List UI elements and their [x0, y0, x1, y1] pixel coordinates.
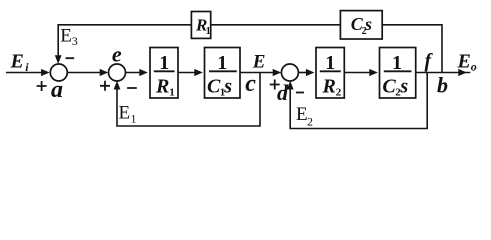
- block 1/C2s: [380, 48, 416, 99]
- wire E1 feedback: [117, 73, 260, 127]
- arrowhead into e from bottom: [114, 81, 121, 90]
- plus sign at e: [100, 81, 110, 91]
- svg-text:1: 1: [325, 52, 335, 74]
- block 1/C1s: [205, 48, 241, 99]
- minus sign at a top: [66, 57, 75, 59]
- minus sign at d: [296, 92, 304, 94]
- arrowhead into block C2s top row: [369, 69, 378, 76]
- svg-text:E: E: [60, 26, 72, 47]
- svg-text:E: E: [296, 104, 308, 125]
- svg-text:E: E: [457, 50, 471, 72]
- wire d to block R2: [299, 72, 310, 74]
- svg-text:1: 1: [159, 52, 169, 74]
- arrowhead into a from top: [55, 55, 62, 64]
- wire top feedback left leg: [58, 25, 191, 56]
- svg-text:R: R: [155, 76, 169, 98]
- svg-text:2: 2: [336, 87, 342, 99]
- svg-text:s: s: [399, 76, 408, 98]
- svg-text:1: 1: [131, 112, 137, 126]
- fraction bar 1/R1: [154, 70, 175, 72]
- svg-text:a: a: [51, 77, 63, 103]
- svg-text:1: 1: [217, 52, 227, 74]
- block C2s top feedback: [340, 11, 382, 39]
- summing junction e: [109, 64, 126, 81]
- svg-text:e: e: [112, 41, 122, 66]
- minus sign at e: [127, 87, 137, 89]
- svg-text:s: s: [364, 14, 372, 34]
- arrowhead into block R2: [306, 69, 315, 76]
- svg-text:E: E: [119, 103, 131, 124]
- arrowhead into a from left: [41, 69, 50, 76]
- wire top feedback right: [382, 25, 442, 73]
- block 1/R1: [150, 48, 178, 99]
- svg-text:3: 3: [72, 34, 78, 48]
- block 1/R2: [316, 48, 344, 99]
- arrowhead into e from left: [100, 69, 109, 76]
- svg-text:c: c: [245, 71, 256, 97]
- wire E2 feedback: [290, 73, 427, 129]
- arrowhead into block R1: [139, 69, 148, 76]
- arrowhead into block C1s: [194, 69, 203, 76]
- summing junction d: [281, 64, 298, 81]
- svg-text:1: 1: [206, 26, 211, 37]
- block R1 top feedback: [191, 12, 210, 39]
- svg-text:b: b: [437, 73, 448, 98]
- svg-text:R: R: [322, 76, 336, 98]
- fraction bar 1/C2s: [384, 70, 412, 72]
- wire a to e: [67, 72, 101, 74]
- wire block C1s to d: [240, 72, 275, 74]
- svg-text:o: o: [471, 59, 477, 73]
- svg-text:s: s: [223, 76, 232, 98]
- svg-text:1: 1: [169, 87, 175, 99]
- wire output to E_o: [416, 72, 471, 74]
- arrowhead into d from left: [273, 69, 282, 76]
- svg-text:E: E: [10, 51, 24, 73]
- svg-text:1: 1: [392, 52, 402, 74]
- wire e to block R1: [125, 72, 143, 74]
- wire block R2 to block C2s: [344, 72, 373, 74]
- fraction bar 1/C1s: [209, 70, 237, 72]
- wire top feedback middle: [211, 24, 341, 26]
- wire input E_i: [6, 72, 43, 74]
- wire block R1 to block C1s: [178, 72, 198, 74]
- plus sign at d: [270, 80, 280, 90]
- fraction bar 1/R2: [320, 70, 341, 72]
- svg-text:d: d: [277, 80, 289, 105]
- summing junction a: [50, 64, 67, 81]
- arrowhead into d from bottom: [287, 81, 294, 90]
- plus sign at a: [37, 81, 47, 91]
- svg-text:E: E: [252, 51, 266, 72]
- svg-text:2: 2: [307, 115, 313, 129]
- svg-text:f: f: [425, 50, 434, 72]
- arrowhead output E_o: [458, 69, 467, 76]
